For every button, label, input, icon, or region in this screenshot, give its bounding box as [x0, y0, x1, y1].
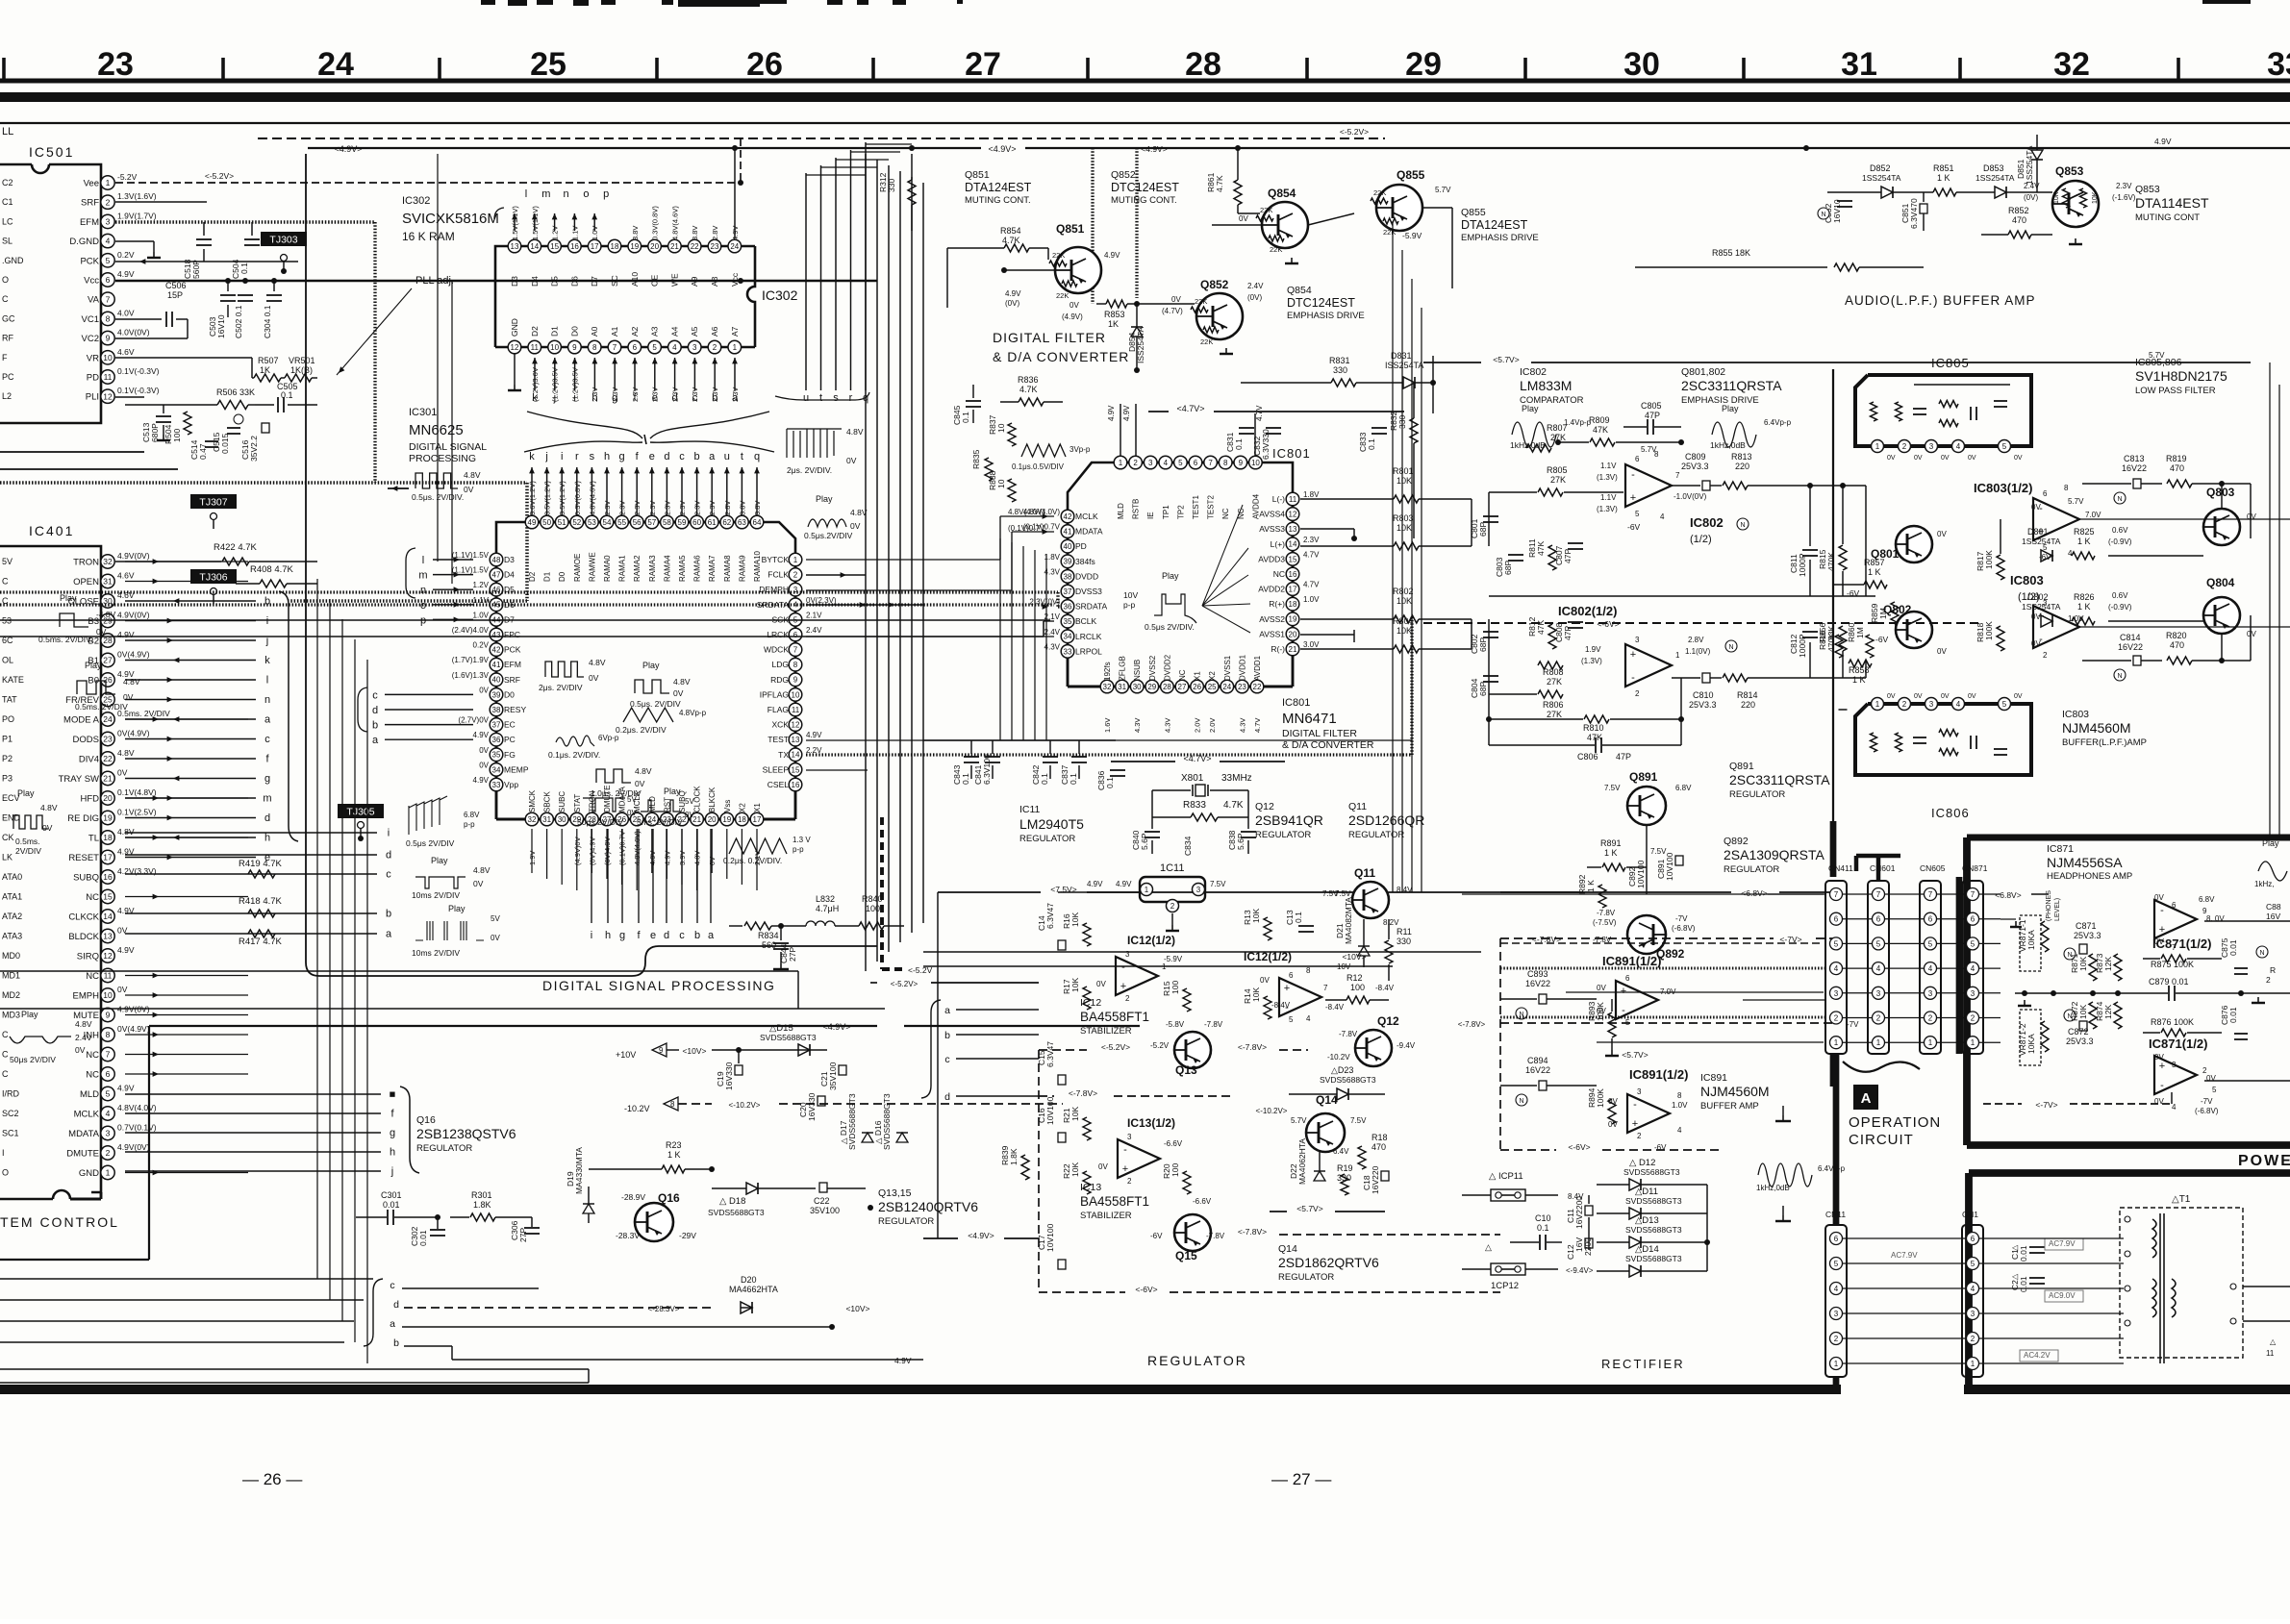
svg-text:22K: 22K	[1052, 251, 1065, 260]
svg-text:Q854: Q854	[1287, 285, 1312, 296]
svg-text:b: b	[372, 720, 378, 732]
svg-text:7.0V: 7.0V	[2085, 511, 2101, 519]
svg-text:1C11: 1C11	[1160, 862, 1184, 874]
svg-text:a: a	[390, 1318, 395, 1330]
IC302 pin 10 D1	[548, 340, 562, 354]
svg-text:EMPH: EMPH	[73, 991, 100, 1002]
svg-text:100K: 100K	[1984, 621, 1994, 640]
svg-text:10V100: 10V100	[1045, 1096, 1055, 1125]
bus -5.2V dashed top	[258, 137, 1385, 139]
svg-text:-4.8V: -4.8V	[96, 610, 116, 619]
svg-text:Q16: Q16	[416, 1114, 436, 1126]
svg-text:0.01: 0.01	[383, 1200, 400, 1210]
svg-text:s: s	[833, 392, 839, 404]
svg-text:6: 6	[1834, 915, 1839, 924]
IC401 pin 22 DIV4	[101, 752, 114, 765]
wires IC801 right to Q801 Q802 region	[1471, 499, 1472, 546]
IC301 pin 9 RDG	[789, 673, 802, 687]
svg-text:<10V>: <10V>	[845, 1304, 869, 1313]
svg-text:<-6V>: <-6V>	[1568, 1142, 1590, 1152]
svg-text:C813: C813	[2124, 454, 2145, 463]
svg-text:N: N	[2259, 950, 2264, 957]
CN605 pin 2	[1925, 1012, 1937, 1024]
svg-text:b: b	[944, 1030, 950, 1041]
svg-text:0V: 0V	[1239, 214, 1248, 223]
svg-text:MA4082MTA: MA4082MTA	[1344, 897, 1353, 944]
svg-text:0.1: 0.1	[1367, 438, 1376, 450]
svg-text:-28.9V: -28.9V	[621, 1192, 645, 1202]
svg-text:CSEL: CSEL	[768, 780, 789, 789]
label A OPERATION CIRCUIT	[1853, 1085, 1878, 1110]
svg-text:VA: VA	[88, 295, 100, 306]
svg-text:1 K: 1 K	[1586, 880, 1596, 892]
svg-text:IC802(1/2): IC802(1/2)	[1558, 604, 1617, 618]
svg-text:R852: R852	[2008, 206, 2029, 215]
svg-text:GND: GND	[510, 318, 519, 337]
svg-text:1 K: 1 K	[1868, 567, 1881, 577]
svg-text:1: 1	[1834, 1038, 1839, 1047]
svg-text:d: d	[393, 1299, 399, 1311]
svg-text:b: b	[694, 930, 700, 941]
svg-text:MUTING CONT.: MUTING CONT.	[1111, 195, 1177, 206]
svg-text:4.8V(4.6V): 4.8V(4.6V)	[670, 206, 679, 240]
IC801 AVSS ground stubs	[1300, 528, 1354, 530]
svg-text:0.6V: 0.6V	[2112, 591, 2128, 600]
IC806 thick box	[1855, 704, 2031, 775]
svg-text:I/RD: I/RD	[2, 1089, 20, 1099]
svg-text:D853: D853	[1983, 163, 2004, 173]
svg-text:21: 21	[103, 774, 113, 784]
IC301 pin 46 D5	[490, 583, 503, 596]
svg-text:10: 10	[550, 343, 559, 352]
svg-text:7.5V: 7.5V	[1210, 880, 1226, 888]
svg-text:DIV4: DIV4	[79, 755, 99, 765]
svg-text:d: d	[664, 930, 669, 941]
svg-text:Play: Play	[1162, 571, 1179, 581]
IC301 pin 52 RAMOE	[570, 515, 584, 529]
svg-text:1SS254TA: 1SS254TA	[2022, 537, 2061, 546]
svg-text:4.9V: 4.9V	[894, 1356, 912, 1365]
svg-text:N: N	[1740, 522, 1745, 529]
IC302 pin 13 D3	[508, 239, 521, 253]
svg-text:Vss: Vss	[723, 800, 732, 812]
svg-text:53: 53	[588, 518, 596, 527]
capacitor C304 0.1	[273, 281, 275, 291]
svg-text:BUFFER AMP: BUFFER AMP	[1700, 1101, 1759, 1112]
svg-text:4.8V: 4.8V	[846, 427, 864, 437]
svg-text:10K: 10K	[1070, 912, 1080, 927]
svg-text:D1: D1	[543, 571, 552, 582]
svg-text:2.3V: 2.3V	[2116, 182, 2132, 190]
svg-text:-7V: -7V	[2201, 1097, 2213, 1106]
svg-text:R855 18K: R855 18K	[1712, 248, 1750, 258]
IC801 pin 16 NC	[1286, 567, 1299, 581]
svg-text:68P: 68P	[1478, 682, 1488, 696]
svg-text:10K: 10K	[1070, 978, 1080, 992]
svg-text:<-10.2V>: <-10.2V>	[1256, 1107, 1288, 1115]
rails from IC803 outputs down to headphone box	[2077, 518, 2290, 520]
svg-text:d: d	[672, 392, 678, 404]
svg-text:Vpp: Vpp	[504, 780, 518, 789]
svg-text:0.1V(2.5V): 0.1V(2.5V)	[117, 808, 157, 817]
IC301 pin 29 STAT	[570, 812, 584, 826]
IC401 pin 26 B0	[101, 673, 114, 687]
svg-text:5V: 5V	[685, 797, 694, 806]
svg-text:Q14: Q14	[1278, 1243, 1297, 1255]
CN1 pin 3	[1967, 1308, 1979, 1320]
svg-text:3: 3	[1196, 886, 1201, 894]
top edge remnant marks	[481, 0, 495, 5]
svg-text:6.8V: 6.8V	[2199, 895, 2215, 904]
svg-text:HFD: HFD	[80, 794, 99, 805]
svg-text:14: 14	[530, 242, 539, 251]
svg-text:MN6471: MN6471	[1282, 711, 1337, 727]
svg-text:3: 3	[1637, 1087, 1642, 1096]
IC401 pin 3 MDATA	[101, 1126, 114, 1139]
svg-text:31: 31	[542, 815, 551, 824]
svg-text:27K: 27K	[1550, 433, 1566, 442]
svg-text:1: 1	[1875, 700, 1880, 709]
svg-text:p-p: p-p	[793, 845, 804, 854]
svg-text:0.3V(0.8V): 0.3V(0.8V)	[573, 481, 582, 515]
svg-text:X1: X1	[1194, 671, 1202, 681]
svg-text:16V2200: 16V2200	[1574, 1196, 1584, 1229]
svg-text:R819: R819	[2166, 454, 2187, 463]
IC401 pin 14 CLKCK	[101, 910, 114, 923]
svg-text:C88: C88	[2266, 902, 2281, 912]
svg-text:19: 19	[1289, 615, 1297, 624]
IC801 pin 8 NC	[1219, 456, 1232, 469]
svg-text:RESET: RESET	[68, 853, 99, 863]
svg-text:C1: C1	[2, 197, 13, 207]
svg-text:0V: 0V	[1096, 980, 1106, 988]
svg-text:2.3V: 2.3V	[1303, 536, 1320, 544]
svg-text:64: 64	[753, 518, 762, 527]
svg-text:REGULATOR: REGULATOR	[1255, 830, 1311, 840]
IC301 pin 4 SRDATA	[789, 598, 802, 612]
CN1 pin 2	[1967, 1333, 1979, 1345]
svg-text:1: 1	[1119, 459, 1123, 467]
power thick frame	[1969, 1169, 2290, 1177]
capacitor C504 0.1	[251, 222, 253, 236]
svg-text:0V: 0V	[627, 809, 637, 817]
IC806 pin 4	[1952, 698, 1965, 711]
svg-text:r: r	[849, 392, 853, 404]
svg-text:A3: A3	[650, 326, 660, 337]
svg-text:PROCESSING: PROCESSING	[409, 453, 476, 464]
svg-text:11: 11	[531, 343, 540, 352]
svg-text:13: 13	[1289, 525, 1297, 534]
svg-text:+: +	[1632, 1118, 1638, 1130]
svg-text:5V: 5V	[2, 557, 13, 566]
plain rails into CN columns	[1768, 893, 1825, 895]
svg-text:Q13: Q13	[1175, 1063, 1197, 1077]
svg-text:13: 13	[103, 932, 113, 941]
svg-text:3: 3	[2043, 599, 2048, 608]
svg-text:PO: PO	[2, 714, 14, 724]
svg-text:R875 100K: R875 100K	[2151, 960, 2194, 969]
svg-text:Q12: Q12	[1255, 801, 1274, 812]
IC301 pin 27 DMUTE	[600, 812, 614, 826]
svg-text:D4: D4	[530, 276, 540, 287]
svg-text:11: 11	[792, 706, 800, 714]
svg-text:PC: PC	[504, 735, 516, 744]
svg-text:4: 4	[672, 343, 677, 352]
IC302 pin 24 Vcc	[728, 239, 742, 253]
svg-text:LK: LK	[2, 853, 13, 862]
svg-text:11: 11	[104, 372, 113, 382]
svg-text:5: 5	[1928, 939, 1933, 948]
svg-text:Q852: Q852	[1200, 278, 1229, 291]
svg-text:100: 100	[1350, 983, 1365, 992]
IC301 pin 2 FCLK	[789, 568, 802, 582]
svg-text:35V100: 35V100	[810, 1206, 840, 1215]
svg-text:10: 10	[1251, 459, 1260, 467]
svg-text:47P: 47P	[1563, 549, 1573, 563]
svg-text:0.5ms. 2V/DIV: 0.5ms. 2V/DIV	[75, 702, 128, 712]
svg-text:16: 16	[570, 242, 579, 251]
waveform 5ms test	[641, 800, 681, 812]
svg-text:15: 15	[550, 242, 559, 251]
bottom thick border bar	[0, 1385, 1841, 1394]
svg-text:MD1: MD1	[2, 971, 20, 981]
wire TEST TX to right	[806, 739, 1412, 741]
waveform 3Vpp triangle	[1021, 444, 1066, 457]
svg-text:<5.7V>: <5.7V>	[1622, 1050, 1648, 1060]
svg-text:Q892: Q892	[1724, 836, 1749, 847]
svg-text:(-0.9V): (-0.9V)	[2108, 537, 2132, 546]
svg-text:10V100: 10V100	[1045, 1223, 1055, 1252]
svg-text:0V: 0V	[2154, 1053, 2164, 1062]
svg-text:m: m	[541, 188, 550, 200]
svg-text:Play: Play	[1722, 404, 1739, 413]
svg-text:8: 8	[670, 1100, 675, 1109]
gnd symbols right regulator	[1782, 1115, 1784, 1121]
svg-text:D0: D0	[569, 326, 579, 337]
svg-text:IC301: IC301	[409, 407, 437, 418]
svg-text:R851: R851	[1933, 163, 1954, 173]
svg-text:-8.4V: -8.4V	[1271, 1001, 1291, 1010]
svg-text:0V(4.9V): 0V(4.9V)	[117, 729, 150, 738]
svg-text:26: 26	[1193, 683, 1201, 691]
svg-text:SVDS5688GT3: SVDS5688GT3	[847, 1093, 857, 1150]
svg-text:0V: 0V	[1597, 984, 1606, 992]
IC401 pin 7 NC	[101, 1047, 114, 1061]
svg-text:R507: R507	[258, 356, 279, 365]
svg-text:R891: R891	[1600, 838, 1622, 848]
svg-text:23: 23	[103, 735, 113, 744]
svg-text:20: 20	[1289, 630, 1297, 638]
svg-text:28: 28	[1163, 683, 1171, 691]
svg-text:a: a	[386, 929, 392, 940]
svg-text:1.6V: 1.6V	[1103, 718, 1112, 733]
svg-text:D0: D0	[504, 689, 515, 699]
svg-text:C871: C871	[2076, 921, 2097, 931]
IC302 pin 16 D6	[568, 239, 582, 253]
svg-text:SVDS5688GT3: SVDS5688GT3	[760, 1033, 817, 1042]
svg-text:MEMP: MEMP	[504, 764, 529, 774]
svg-text:22: 22	[691, 242, 699, 251]
svg-text:<4.9V>: <4.9V>	[822, 1022, 850, 1032]
svg-text:-6V: -6V	[1150, 1232, 1163, 1240]
svg-text:48: 48	[492, 556, 501, 564]
svg-text:9: 9	[572, 343, 577, 352]
IC801 pin 33 LRPOL	[1061, 645, 1074, 659]
svg-text:0V: 0V	[42, 823, 53, 833]
svg-text:23: 23	[711, 242, 719, 251]
svg-text:4.0V(0V): 4.0V(0V)	[117, 328, 150, 337]
svg-text:C809: C809	[1685, 452, 1706, 462]
svg-text:6: 6	[106, 1069, 111, 1079]
svg-text:(1.7V)1.9V: (1.7V)1.9V	[452, 656, 490, 664]
svg-text:18: 18	[1289, 600, 1297, 609]
svg-text:1: 1	[106, 178, 111, 187]
svg-text:2.4V: 2.4V	[75, 1033, 92, 1042]
svg-text:DTA124EST: DTA124EST	[1461, 218, 1528, 232]
svg-text:10: 10	[996, 423, 1006, 433]
svg-text:— 27 —: — 27 —	[1271, 1470, 1331, 1488]
svg-text:6: 6	[1971, 1235, 1975, 1243]
svg-text:4: 4	[106, 237, 111, 246]
svg-text:6.8V: 6.8V	[464, 811, 480, 819]
svg-text:0.01: 0.01	[2019, 1276, 2028, 1292]
IC301 pin 7 WDCK	[789, 643, 802, 657]
svg-text:-: -	[1633, 1099, 1637, 1111]
CN605 pin 1	[1925, 1037, 1937, 1049]
svg-text:SVDS5688GT3: SVDS5688GT3	[1623, 1167, 1680, 1177]
svg-text:STABILIZER: STABILIZER	[1080, 1026, 1132, 1037]
CN601 pin 7	[1873, 888, 1885, 901]
IC301 pin 40 SRF	[490, 673, 503, 687]
svg-text:(4.7V): (4.7V)	[1162, 307, 1183, 315]
svg-text:42: 42	[1064, 512, 1072, 521]
svg-text:0V: 0V	[1914, 693, 1923, 700]
svg-text:560P: 560P	[191, 260, 201, 279]
svg-text:30: 30	[558, 815, 566, 824]
svg-text:u: u	[724, 451, 730, 462]
svg-text:Q16: Q16	[658, 1191, 680, 1205]
svg-text:2: 2	[1637, 1132, 1642, 1140]
hatched bus segment below IC501	[0, 468, 178, 470]
thick vertical CN411 bar top	[1830, 821, 1837, 877]
svg-text:c: c	[679, 930, 685, 941]
IC805 internal RC	[1871, 402, 1877, 421]
IC806 pin 3	[1925, 698, 1938, 711]
svg-text:100K: 100K	[1596, 1088, 1605, 1108]
svg-text:Vcc: Vcc	[84, 276, 99, 287]
svg-text:a: a	[709, 451, 716, 462]
svg-text:n: n	[420, 585, 426, 596]
svg-text:9: 9	[659, 1046, 664, 1055]
svg-text:<10V>: <10V>	[1342, 952, 1366, 962]
IC301 pin 62 RAMA8	[720, 515, 734, 529]
svg-text:47P: 47P	[1616, 752, 1631, 762]
svg-text:(0V): (0V)	[1247, 293, 1262, 302]
IC301 pin 17 X1	[750, 812, 764, 826]
svg-text:R12: R12	[1346, 973, 1363, 983]
IC401 pin 2 DMUTE	[101, 1146, 114, 1160]
svg-text:4: 4	[2068, 549, 2073, 558]
svg-text:<-28.3V>: <-28.3V>	[648, 1305, 680, 1313]
IC301 pin 11 FLAG	[789, 703, 802, 716]
svg-text:(2.4V)4.0V: (2.4V)4.0V	[452, 626, 490, 635]
svg-text:0V: 0V	[2031, 639, 2041, 648]
svg-text:3: 3	[1876, 989, 1881, 998]
svg-text:330: 330	[1397, 937, 1411, 946]
svg-text:(-0.9V): (-0.9V)	[2108, 603, 2132, 612]
svg-text:2V/DIV: 2V/DIV	[15, 846, 41, 856]
svg-text:d: d	[944, 1091, 950, 1103]
svg-text:0V: 0V	[635, 779, 645, 788]
svg-text:CN601: CN601	[1870, 863, 1896, 873]
svg-text:WDCK: WDCK	[764, 645, 789, 655]
svg-text:(1.3V): (1.3V)	[1597, 505, 1618, 513]
svg-text:RF: RF	[2, 334, 13, 343]
svg-text:43: 43	[492, 631, 501, 639]
svg-text:b: b	[386, 909, 391, 920]
op-amp IC803 1/2 upper	[2033, 498, 2079, 540]
svg-text:0.1: 0.1	[1040, 773, 1049, 785]
svg-text:RESY: RESY	[504, 705, 526, 714]
IC302 pin 20 OE	[648, 239, 662, 253]
svg-text:4.8V: 4.8V	[850, 508, 868, 517]
svg-text:27P: 27P	[518, 1228, 528, 1242]
svg-text:8: 8	[106, 313, 111, 323]
svg-text:AVDD3: AVDD3	[1258, 554, 1285, 563]
svg-text:52: 52	[572, 518, 581, 527]
svg-text:8: 8	[1223, 459, 1228, 467]
svg-text:d: d	[372, 705, 378, 716]
svg-text:6: 6	[1876, 915, 1881, 924]
svg-text:5: 5	[1971, 939, 1975, 948]
svg-text:(0V): (0V)	[2024, 193, 2038, 202]
IC301 pin 55 RAMA1	[616, 515, 629, 529]
svg-text:PD: PD	[87, 373, 99, 384]
svg-text:-6.6V: -6.6V	[1164, 1139, 1183, 1148]
svg-text:j: j	[544, 451, 547, 462]
svg-text:AC9.0V: AC9.0V	[2049, 1291, 2076, 1300]
svg-text:0V: 0V	[1070, 301, 1079, 310]
svg-text:REGULATOR: REGULATOR	[878, 1216, 934, 1227]
svg-text:4.8V: 4.8V	[117, 827, 135, 837]
svg-text:28: 28	[1185, 46, 1221, 83]
svg-text:h: h	[591, 392, 597, 404]
svg-text:<-5.2V>: <-5.2V>	[205, 171, 234, 181]
svg-text:4: 4	[106, 1109, 111, 1118]
svg-text:Vcc: Vcc	[730, 272, 740, 287]
svg-text:Q13,15: Q13,15	[878, 1187, 912, 1199]
svg-text:BUFFER(L.P.F.)AMP: BUFFER(L.P.F.)AMP	[2062, 737, 2147, 748]
svg-text:4.3V: 4.3V	[1238, 718, 1246, 733]
IC801 pin 9 NC	[1234, 456, 1247, 469]
svg-text:(1/2): (1/2)	[1690, 534, 1712, 545]
ground IC501 pin4	[115, 240, 154, 242]
svg-text:C879 0.01: C879 0.01	[2149, 977, 2189, 987]
svg-text:A2: A2	[630, 326, 640, 337]
svg-text:0V: 0V	[685, 811, 694, 819]
svg-text:1: 1	[1971, 1360, 1975, 1368]
svg-text:3.8V: 3.8V	[691, 226, 699, 240]
svg-text:d: d	[386, 850, 391, 862]
svg-text:l: l	[422, 555, 424, 566]
svg-text:GC: GC	[2, 313, 15, 323]
svg-text:a: a	[264, 714, 271, 726]
svg-text:-7.8V: -7.8V	[1339, 1030, 1358, 1038]
svg-text:AVSS4: AVSS4	[1259, 510, 1285, 519]
ruler baseline	[0, 78, 2290, 83]
IC401 pin 4 MCLK	[101, 1107, 114, 1120]
svg-text:22: 22	[103, 754, 113, 763]
